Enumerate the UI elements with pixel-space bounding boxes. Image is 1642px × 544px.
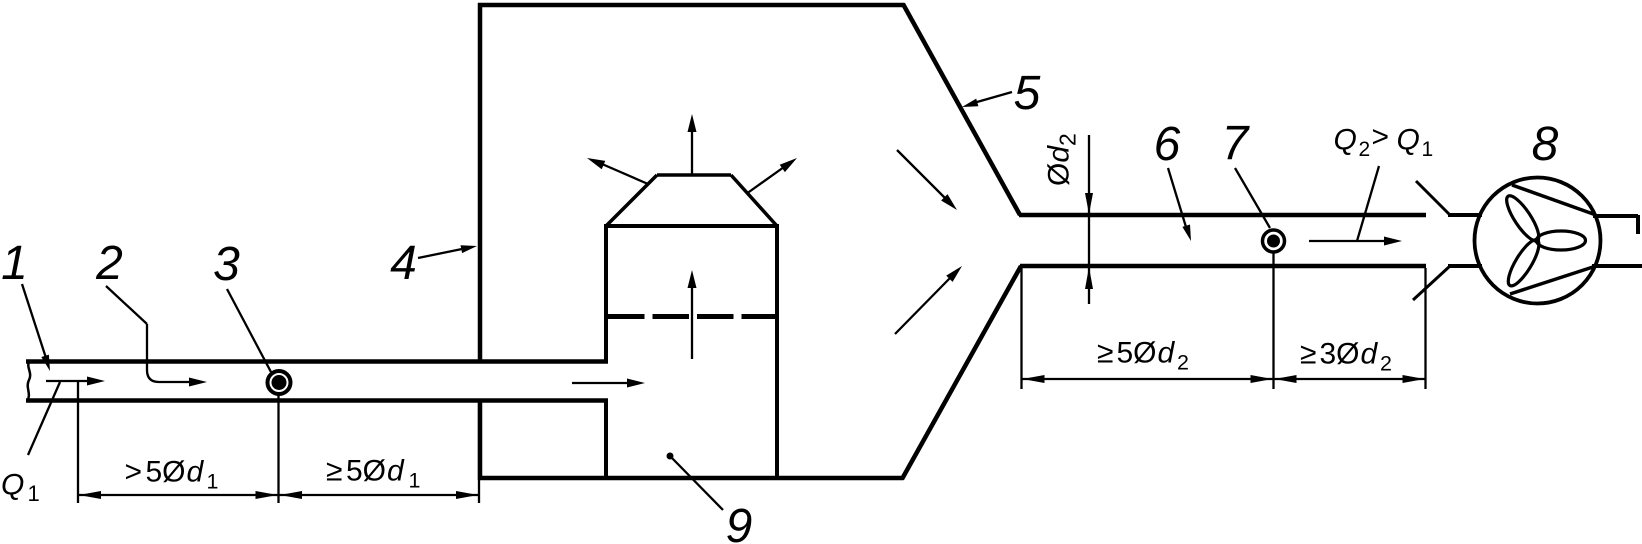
fan casing circle bbox=[1475, 178, 1601, 304]
separator column right wall bbox=[775, 224, 779, 480]
svg-text:2: 2 bbox=[95, 237, 123, 290]
separator cap top bbox=[657, 173, 731, 177]
chamber left wall lower bbox=[478, 399, 483, 480]
flexible connector lower diagonal bbox=[1413, 266, 1450, 300]
svg-text:≥5Ød2: ≥5Ød2 bbox=[1097, 337, 1189, 375]
svg-text:1: 1 bbox=[1, 237, 28, 290]
fan outlet duct end bbox=[1636, 215, 1640, 234]
svg-text:≥5Ød1: ≥5Ød1 bbox=[326, 455, 420, 493]
separator cap left slope bbox=[606, 175, 657, 226]
svg-text:>5Ød1: >5Ød1 bbox=[125, 456, 219, 494]
label 5 leader bbox=[977, 92, 1012, 102]
flow arrow before separator bbox=[572, 382, 629, 384]
label 9 leader bbox=[667, 453, 674, 460]
diffuse arrow up-right bbox=[748, 167, 785, 193]
svg-text:Ød2: Ød2 bbox=[1043, 133, 1081, 186]
sensor 7 bbox=[1263, 230, 1285, 252]
up arrow above cap bbox=[691, 130, 693, 174]
duct 1 bottom wall bbox=[26, 398, 608, 403]
label 6 leader bbox=[1168, 168, 1186, 227]
separator dashed level line bbox=[608, 314, 777, 319]
chamber bottom wall bbox=[478, 476, 904, 481]
label 7 leader bbox=[1235, 168, 1270, 228]
dim extension line left B (sensor 3 axis) bbox=[277, 394, 279, 503]
label 2 leader bbox=[106, 286, 147, 324]
sensor 3 bbox=[268, 371, 291, 394]
svg-text:4: 4 bbox=[390, 237, 417, 290]
duct 1 top wall bbox=[26, 359, 608, 364]
duct 1 inlet break bbox=[27, 360, 30, 402]
svg-text:Q1: Q1 bbox=[1, 469, 40, 507]
dimension line >=3d2 bbox=[1274, 378, 1426, 380]
dim extension line right A bbox=[1020, 268, 1022, 389]
svg-text:6: 6 bbox=[1154, 118, 1181, 171]
flow arrow duct 2 bbox=[1309, 240, 1386, 242]
up arrow inside separator bbox=[691, 286, 693, 359]
fan outlet duct bottom bbox=[1592, 264, 1642, 268]
dimension line >5d1 bbox=[78, 494, 279, 496]
dim extension line left C bbox=[478, 402, 480, 503]
chamber top wall bbox=[478, 3, 905, 8]
fan blade right bbox=[1537, 231, 1586, 250]
flow arrow at duct 1 inlet bbox=[46, 380, 90, 382]
Q1 leader bbox=[28, 382, 60, 455]
fan blade upper-left bbox=[1501, 192, 1544, 245]
svg-text:7: 7 bbox=[1222, 117, 1251, 170]
fan blade lower-left bbox=[1503, 236, 1544, 290]
dim extension line left A bbox=[77, 380, 79, 503]
svg-text:Q2>Q1: Q2>Q1 bbox=[1334, 121, 1434, 162]
fan outlet duct top bbox=[1593, 214, 1638, 218]
separator column left wall lower bbox=[604, 399, 608, 480]
svg-text:9: 9 bbox=[726, 500, 753, 544]
svg-text:≥3Ød2: ≥3Ød2 bbox=[1300, 338, 1392, 376]
fan upper chord bbox=[1512, 185, 1596, 215]
chamber left wall upper bbox=[478, 3, 483, 363]
dim extension line right B (sensor 7 axis) bbox=[1272, 253, 1274, 389]
separator cap base bbox=[604, 224, 779, 228]
diameter d2 dimension line bbox=[1088, 135, 1090, 304]
chamber lower taper bbox=[902, 266, 1021, 479]
Q2 leader bbox=[1357, 166, 1379, 241]
fan hub bbox=[1534, 238, 1540, 244]
chamber upper taper bbox=[903, 4, 1020, 215]
converging arrow upper bbox=[897, 150, 946, 199]
label 1 leader bbox=[22, 284, 46, 358]
dimension line >=5d1 bbox=[279, 494, 480, 496]
diffuse arrow up-left bbox=[602, 164, 648, 184]
duct 2 bottom wall bbox=[1020, 264, 1426, 269]
separator cap right slope bbox=[731, 175, 777, 226]
fan lower chord bbox=[1510, 266, 1596, 294]
svg-text:5: 5 bbox=[1014, 67, 1041, 120]
flexible connector upper diagonal bbox=[1416, 181, 1450, 215]
dim extension line right C bbox=[1424, 268, 1426, 389]
fan inlet stub top bbox=[1448, 213, 1482, 217]
label 4 leader bbox=[418, 249, 462, 258]
dimension line >=5d2 bbox=[1022, 378, 1274, 380]
label 3 leader bbox=[227, 289, 271, 372]
separator column left wall upper bbox=[604, 224, 608, 363]
fan inlet stub bottom bbox=[1448, 264, 1482, 268]
svg-text:3: 3 bbox=[213, 238, 240, 291]
probe 2 bent arrow bbox=[147, 324, 190, 382]
svg-text:8: 8 bbox=[1532, 118, 1559, 171]
duct 2 top wall bbox=[1019, 213, 1426, 218]
converging arrow lower bbox=[895, 278, 950, 334]
